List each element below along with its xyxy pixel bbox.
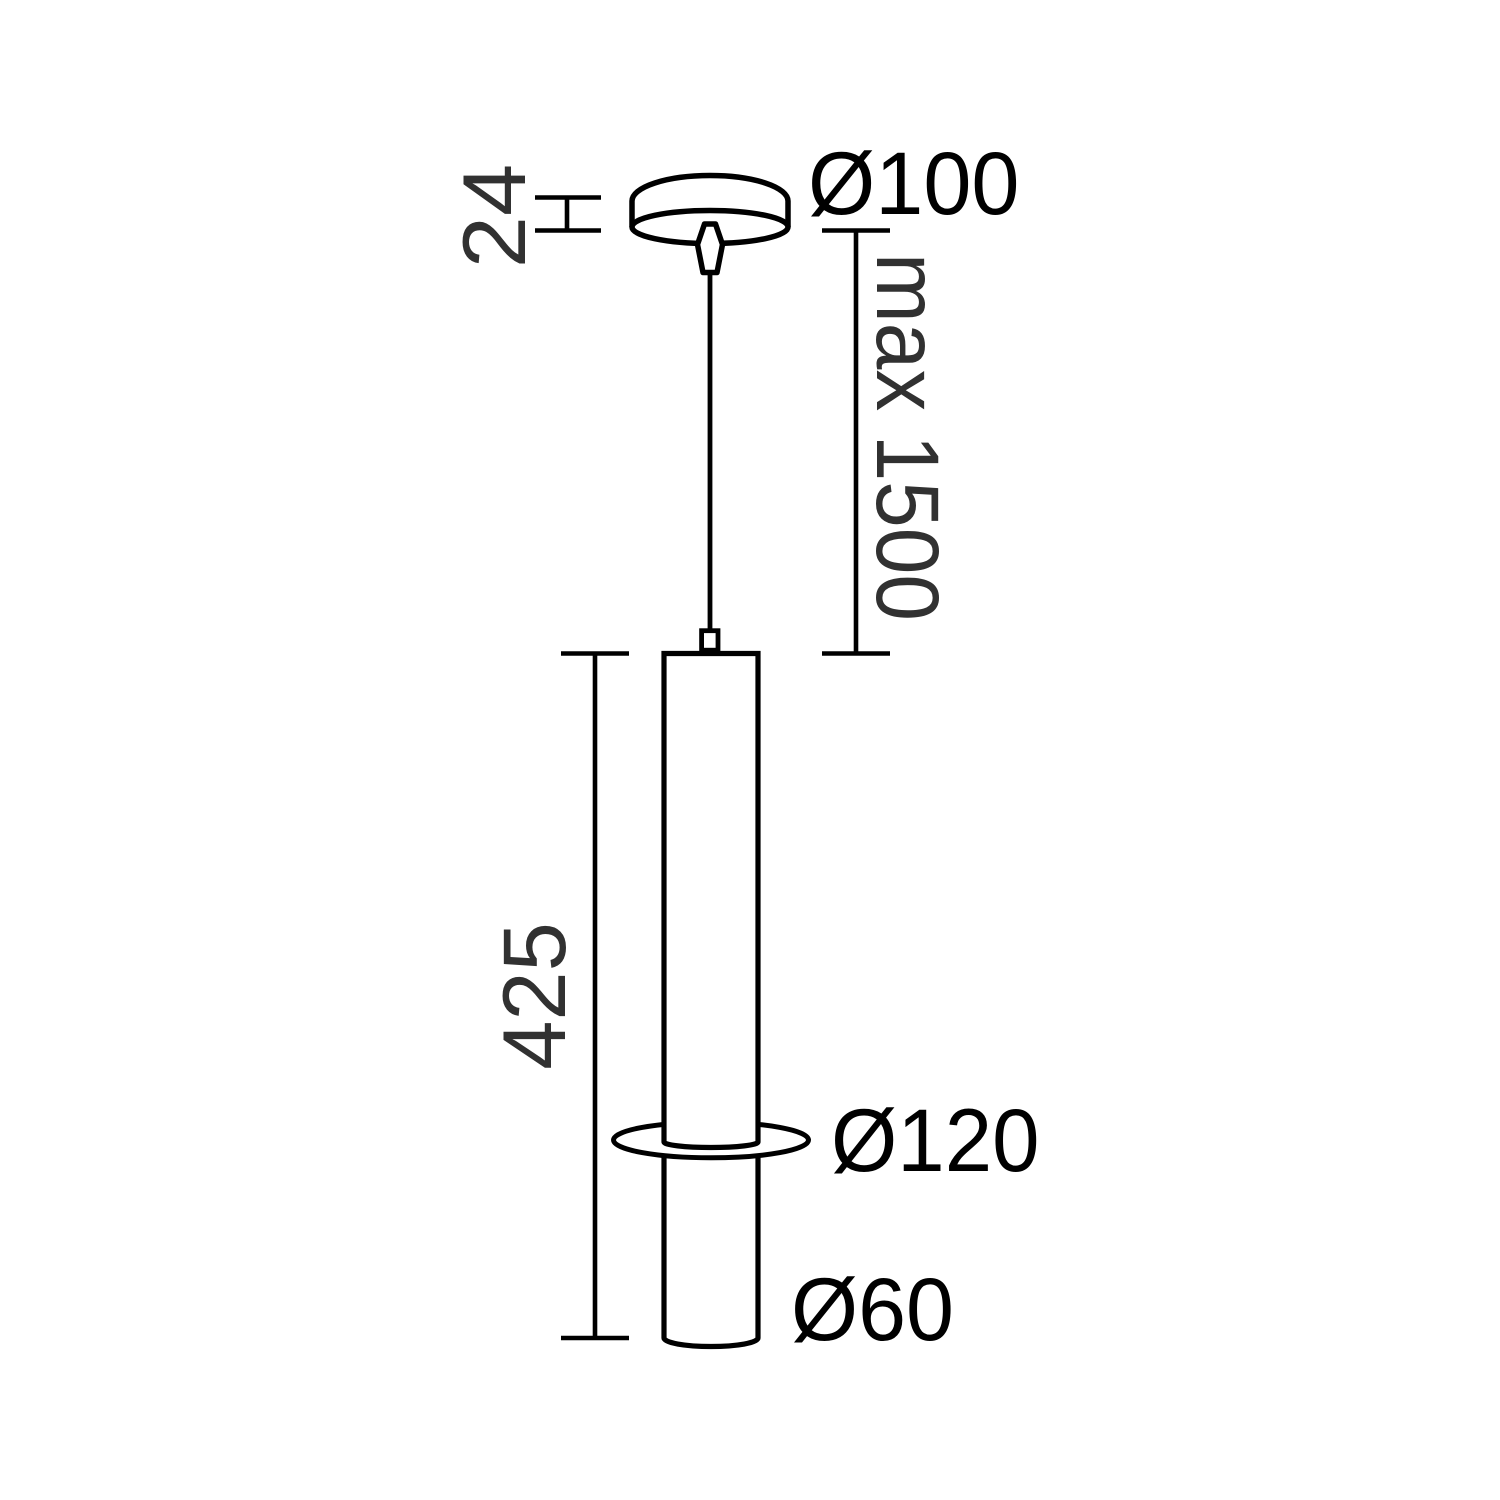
cable connector block — [702, 631, 718, 651]
dimension 24 connector bar — [565, 198, 570, 231]
svg-text:425: 425 — [484, 922, 584, 1070]
svg-text:max 1500: max 1500 — [858, 253, 958, 621]
cable grip cone — [698, 224, 723, 273]
dimension 24 upper extension line — [535, 195, 601, 200]
dimension 24 lower extension line — [535, 228, 601, 233]
svg-text:Ø120: Ø120 — [831, 1090, 1040, 1190]
svg-text:Ø60: Ø60 — [791, 1259, 954, 1359]
dimension max1500 top tick — [822, 228, 890, 233]
canopy left side — [629, 201, 635, 227]
canopy right side — [785, 201, 791, 227]
dimension max1500 bottom tick — [822, 651, 890, 656]
dimension 425 vertical line — [593, 654, 598, 1339]
dimension 425 top tick — [561, 651, 629, 656]
svg-text:24: 24 — [444, 164, 544, 269]
decorative ring disc — [614, 1122, 809, 1158]
dimension max1500 vertical line — [854, 231, 859, 654]
suspension cable — [708, 273, 713, 631]
lower tube section — [664, 1150, 758, 1347]
canopy top arc — [632, 176, 788, 201]
upper tube section — [664, 654, 758, 1148]
canopy bottom rim ellipse — [632, 211, 788, 244]
dimension 425 bottom tick — [561, 1336, 629, 1341]
svg-text:Ø100: Ø100 — [808, 133, 1020, 233]
